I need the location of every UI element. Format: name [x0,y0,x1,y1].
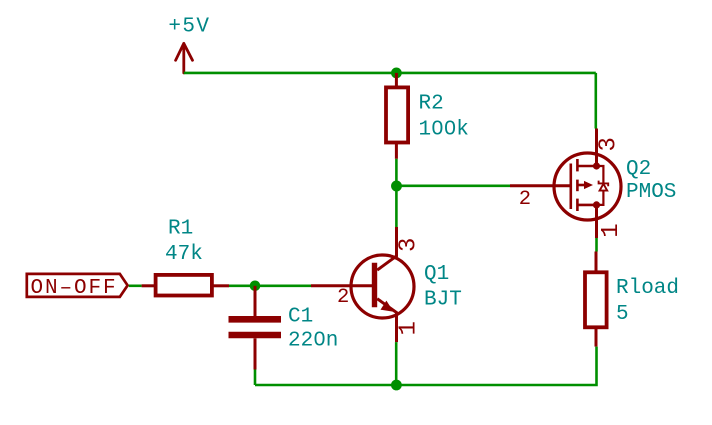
C1 bottom plate [229,332,282,339]
R2 body [386,87,408,142]
resistor R1 [142,218,229,296]
global label ON-OFF [27,274,128,300]
source connect [577,204,596,207]
R2 pin 1 stub [395,73,398,88]
wire Q1 emitter to bottom rail [395,342,398,385]
svg-text:ON–OFF: ON–OFF [31,277,118,300]
svg-text:R2: R2 [419,93,444,116]
R1 body [156,275,212,296]
pin 2 gate left [510,184,571,187]
body circle [554,153,621,220]
svg-text:BJT: BJT [424,289,462,312]
junction dot drain [593,162,600,169]
wire mid node to Q2 gate [396,185,510,188]
wire Rload bottom elbow to bottom rail [255,347,597,385]
body diode triangle [600,184,608,191]
pin 2 base [311,284,374,287]
C1 pin 2 lead [254,338,257,369]
svg-text:R1: R1 [168,218,193,241]
svg-text:2: 2 [337,286,349,309]
wire Q2 source to Rload [595,238,598,252]
svg-text:5: 5 [616,303,629,326]
emitter arrow [381,301,394,312]
base bar [372,263,377,308]
junction bottom rail [391,380,402,391]
internal link jog through body diode [597,166,604,205]
pin 1 emitter [377,299,396,342]
transistor Q2 PMOS [510,129,676,239]
R1 pin 1 stub [142,284,155,287]
svg-text:220n: 220n [288,330,338,353]
body circle [351,255,414,318]
svg-text:1: 1 [598,223,625,237]
wire label to R1 [129,284,142,287]
wire right vertical from top rail to Q2 [594,73,597,129]
svg-text:Rload: Rload [616,277,679,300]
junction node A [250,281,261,292]
svg-text:+5V: +5V [168,16,210,39]
C1 top plate [229,316,282,323]
R1 pin 2 stub [214,284,230,287]
svg-text:100k: 100k [419,119,469,142]
gate bar [569,164,572,210]
svg-text:1: 1 [396,321,423,335]
bulk arrow [577,184,584,187]
C1 pin 1 lead [254,286,257,317]
capacitor C1 [229,286,339,370]
svg-text:3: 3 [396,238,423,252]
svg-text:2: 2 [519,188,531,211]
transistor Q1 BJT [311,227,462,342]
Rload pin 2 stub [595,328,598,347]
channel segments [576,159,579,171]
svg-text:C1: C1 [288,306,313,329]
drain connect [577,165,596,168]
wire R2 bottom to mid node [395,159,398,186]
+5V arrow [176,43,193,73]
wire mid node down to Q1 collector [395,186,398,227]
svg-text:3: 3 [596,137,623,151]
Rload body [585,272,607,327]
svg-text:PMOS: PMOS [626,181,676,204]
svg-text:Q2: Q2 [626,158,651,181]
ON-OFF label outline [27,274,128,297]
pin 1 source bottom [595,205,598,238]
R2 pin 2 stub [395,143,398,159]
junction mid node [391,181,402,192]
resistor Rload [585,252,679,347]
wire R1 to node A [229,284,311,287]
wire top rail [184,72,596,75]
wire C1 bottom elbow to bottom rail [254,370,257,386]
Rload pin 1 stub [595,252,598,273]
junction top rail [391,68,402,79]
body diode cathode bar [599,181,609,187]
pin 3 collector [377,227,396,270]
svg-text:Q1: Q1 [424,263,449,286]
resistor R2 [386,73,469,159]
power symbol +5V [168,16,210,73]
svg-text:47k: 47k [165,243,203,266]
junction dot source [593,201,600,208]
pin 3 drain top [595,129,598,167]
